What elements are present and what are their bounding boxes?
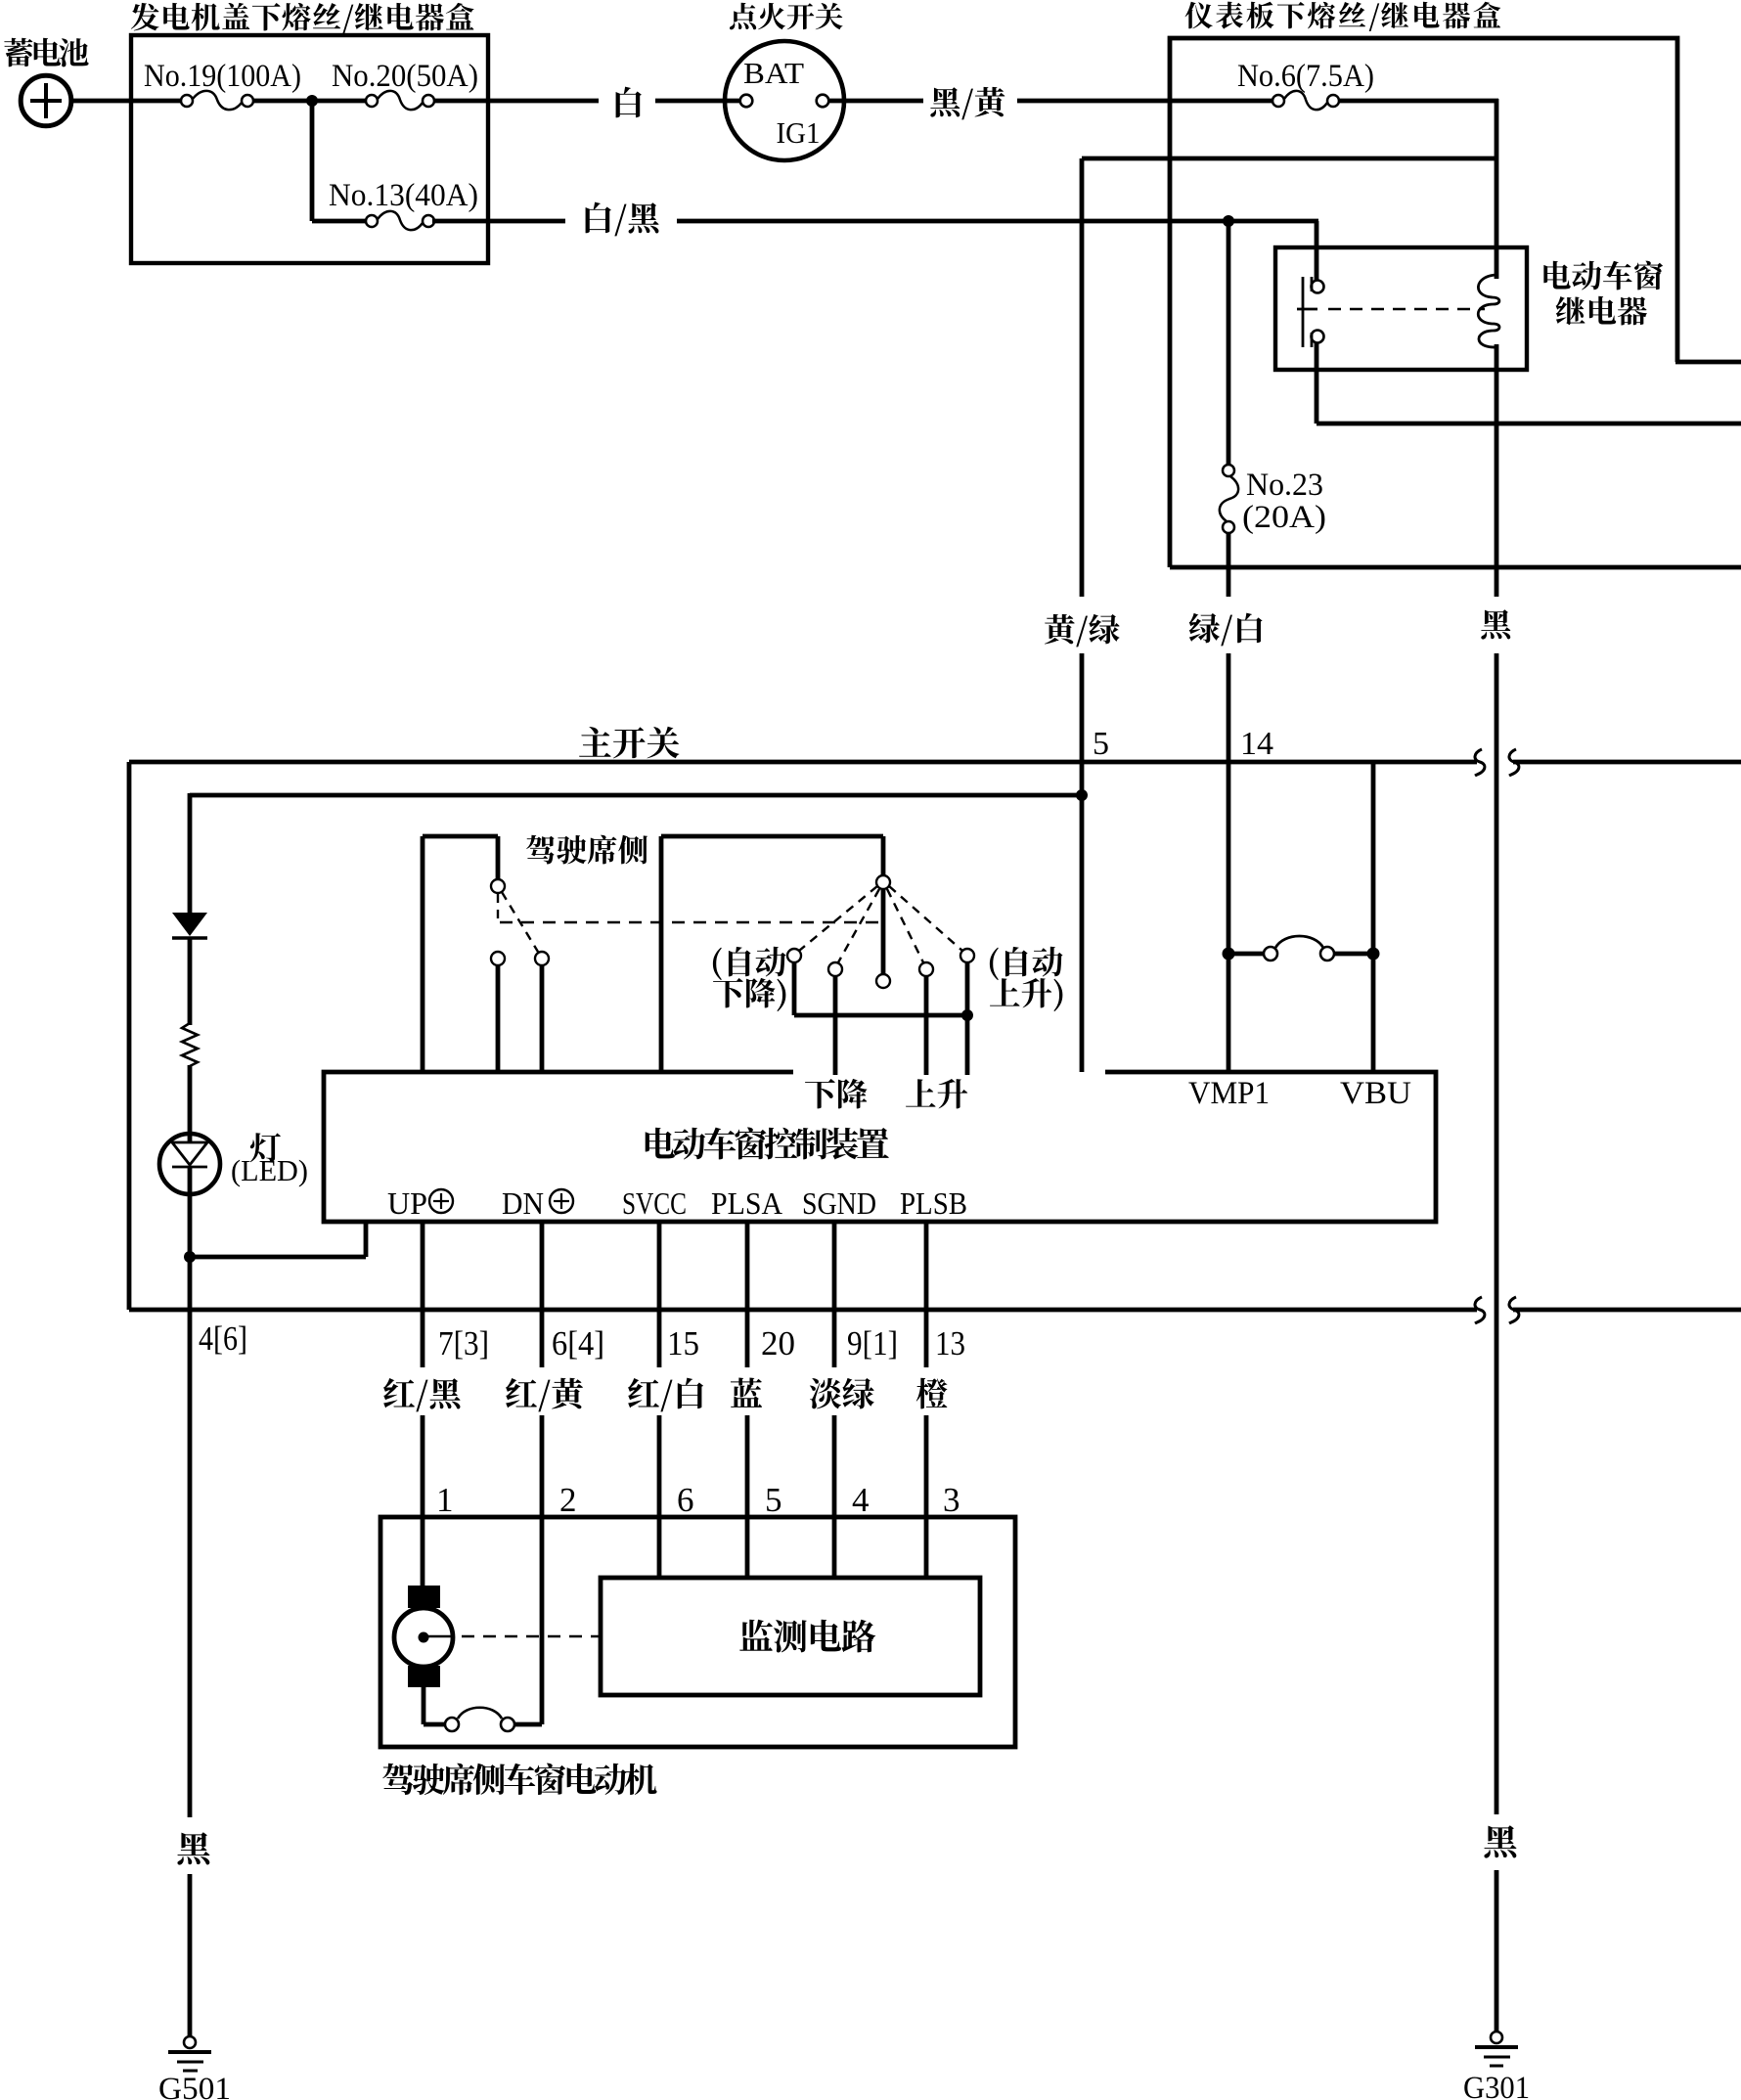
svg-text:PLSB: PLSB bbox=[900, 1185, 967, 1221]
svg-text:No.6(7.5A): No.6(7.5A) bbox=[1237, 59, 1374, 94]
svg-text:VBU: VBU bbox=[1340, 1076, 1411, 1111]
svg-text:No.19(100A): No.19(100A) bbox=[144, 59, 301, 94]
svg-text:SGND: SGND bbox=[802, 1185, 876, 1221]
svg-text:G301: G301 bbox=[1463, 2071, 1530, 2100]
svg-text:14: 14 bbox=[1240, 726, 1273, 762]
svg-text:No.20(50A): No.20(50A) bbox=[332, 59, 478, 94]
svg-text:2: 2 bbox=[559, 1481, 577, 1519]
svg-text:3: 3 bbox=[943, 1481, 960, 1519]
svg-text:(20A): (20A) bbox=[1242, 500, 1326, 535]
svg-text:DN: DN bbox=[502, 1185, 544, 1221]
svg-text:1: 1 bbox=[436, 1481, 454, 1519]
svg-text:4[6]: 4[6] bbox=[199, 1319, 247, 1358]
svg-text:20: 20 bbox=[761, 1324, 795, 1363]
svg-text:4: 4 bbox=[852, 1481, 870, 1519]
svg-text:No.23: No.23 bbox=[1246, 468, 1323, 503]
svg-text:SVCC: SVCC bbox=[622, 1185, 687, 1221]
svg-text:PLSA: PLSA bbox=[711, 1185, 782, 1221]
svg-text:9[1]: 9[1] bbox=[847, 1324, 898, 1363]
svg-text:UP: UP bbox=[387, 1185, 427, 1221]
svg-text:5: 5 bbox=[1093, 726, 1109, 762]
svg-text:7[3]: 7[3] bbox=[438, 1324, 489, 1363]
svg-text:No.13(40A): No.13(40A) bbox=[329, 178, 478, 213]
svg-text:IG1: IG1 bbox=[777, 115, 821, 150]
svg-text:BAT: BAT bbox=[743, 56, 804, 90]
svg-text:(LED): (LED) bbox=[231, 1153, 308, 1187]
svg-text:6: 6 bbox=[677, 1481, 694, 1519]
svg-text:VMP1: VMP1 bbox=[1188, 1076, 1270, 1111]
svg-text:15: 15 bbox=[667, 1324, 699, 1363]
svg-text:5: 5 bbox=[765, 1481, 782, 1519]
svg-text:6[4]: 6[4] bbox=[552, 1324, 604, 1363]
svg-text:13: 13 bbox=[935, 1324, 965, 1363]
svg-text:G501: G501 bbox=[158, 2072, 231, 2100]
